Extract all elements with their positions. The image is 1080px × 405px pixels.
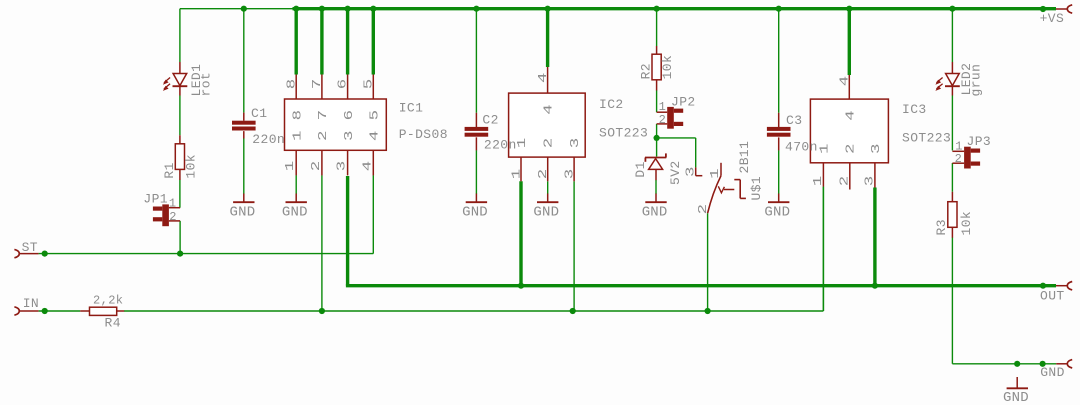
svg-text:6: 6	[337, 79, 350, 89]
svg-text:3: 3	[685, 167, 698, 177]
svg-text:2: 2	[697, 204, 710, 214]
svg-text:JP2: JP2	[671, 95, 696, 110]
svg-text:C3: C3	[786, 113, 802, 128]
svg-text:2B11: 2B11	[737, 141, 752, 174]
svg-text:GND: GND	[1040, 365, 1065, 380]
svg-text:IC2: IC2	[599, 97, 624, 112]
svg-text:2: 2	[659, 113, 667, 127]
svg-text:2: 2	[839, 176, 852, 186]
svg-text:R1: R1	[162, 162, 177, 178]
svg-text:4: 4	[543, 104, 556, 114]
svg-text:3: 3	[870, 144, 883, 154]
svg-text:2: 2	[537, 169, 550, 179]
svg-text:R2: R2	[638, 63, 653, 79]
svg-text:1: 1	[511, 169, 524, 179]
svg-text:10k: 10k	[660, 55, 675, 80]
svg-text:R4: R4	[105, 316, 121, 331]
svg-text:R3: R3	[934, 219, 949, 235]
svg-text:4: 4	[839, 76, 852, 86]
svg-text:5: 5	[363, 79, 376, 89]
svg-text:3: 3	[336, 161, 349, 171]
svg-text:8: 8	[285, 79, 298, 89]
svg-text:3: 3	[343, 131, 356, 141]
svg-text:GND: GND	[1003, 390, 1029, 405]
svg-text:1: 1	[812, 176, 825, 186]
svg-text:IN: IN	[23, 296, 39, 311]
svg-text:10k: 10k	[183, 154, 198, 179]
svg-text:GND: GND	[533, 205, 559, 221]
svg-text:C2: C2	[482, 112, 498, 127]
svg-text:6: 6	[343, 110, 356, 120]
svg-text:2: 2	[955, 152, 963, 166]
svg-text:4: 4	[537, 73, 550, 83]
svg-text:rot: rot	[199, 72, 214, 97]
svg-text:220n: 220n	[252, 132, 285, 147]
svg-text:OUT: OUT	[1040, 289, 1065, 304]
svg-text:1: 1	[659, 100, 667, 114]
svg-text:470n: 470n	[785, 140, 818, 155]
svg-text:2: 2	[310, 161, 323, 171]
svg-text:5: 5	[369, 110, 382, 120]
svg-text:IC1: IC1	[399, 101, 424, 116]
svg-text:4: 4	[845, 110, 858, 120]
svg-text:4: 4	[369, 131, 382, 141]
svg-text:JP1: JP1	[143, 191, 168, 206]
svg-text:GND: GND	[764, 205, 790, 221]
svg-text:+VS: +VS	[1040, 11, 1065, 26]
svg-text:7: 7	[317, 110, 330, 120]
svg-text:1: 1	[284, 161, 297, 171]
svg-text:2: 2	[845, 144, 858, 154]
svg-text:3: 3	[569, 138, 582, 148]
svg-text:7: 7	[311, 79, 324, 89]
svg-text:JP3: JP3	[967, 134, 992, 149]
svg-text:2: 2	[317, 131, 330, 141]
svg-text:1: 1	[818, 144, 831, 154]
svg-text:grun: grun	[969, 64, 984, 97]
svg-text:1: 1	[292, 131, 305, 141]
svg-text:2: 2	[543, 138, 556, 148]
svg-text:P-DS08: P-DS08	[399, 127, 448, 142]
svg-text:8: 8	[292, 110, 305, 120]
svg-text:2,2k: 2,2k	[93, 293, 123, 307]
svg-text:2: 2	[169, 210, 177, 224]
svg-text:GND: GND	[230, 205, 256, 221]
svg-text:U$1: U$1	[749, 176, 764, 201]
svg-text:1: 1	[169, 196, 177, 210]
svg-text:5V2: 5V2	[668, 160, 683, 185]
svg-text:3: 3	[864, 176, 877, 186]
svg-text:220n: 220n	[484, 138, 517, 153]
svg-text:D1: D1	[633, 161, 648, 177]
svg-text:C1: C1	[251, 106, 267, 121]
svg-text:GND: GND	[642, 205, 668, 221]
svg-text:4: 4	[361, 161, 374, 171]
svg-text:SOT223: SOT223	[599, 125, 648, 140]
svg-text:10k: 10k	[959, 211, 974, 236]
svg-text:GND: GND	[282, 205, 308, 221]
svg-text:ST: ST	[22, 240, 38, 255]
svg-text:GND: GND	[462, 205, 488, 221]
svg-text:SOT223: SOT223	[902, 131, 951, 146]
svg-text:IC3: IC3	[902, 102, 927, 117]
svg-text:3: 3	[564, 169, 577, 179]
svg-text:1: 1	[516, 138, 529, 148]
